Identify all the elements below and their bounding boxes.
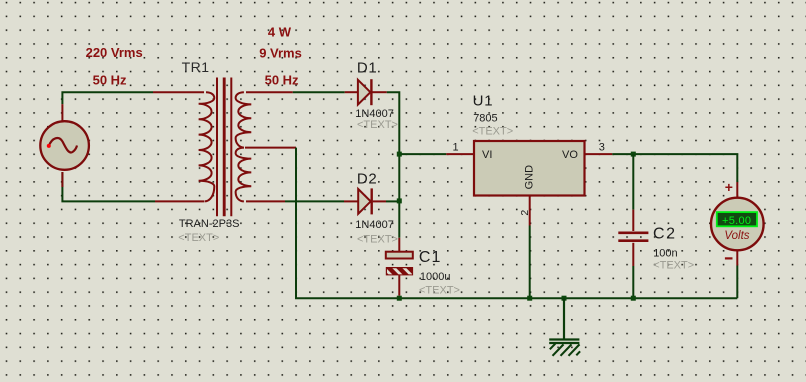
transformer TR1 secondary winding (bottom half) <box>236 148 252 202</box>
capacitor C1 top lead <box>398 238 400 252</box>
AC voltage source <box>40 121 89 170</box>
transformer TR1 core <box>217 78 231 217</box>
voltmeter body <box>711 198 764 251</box>
svg-text:Volts: Volts <box>724 230 749 242</box>
wire: D1 cathode right and down the main node <box>387 92 400 238</box>
svg-text:50 Hz: 50 Hz <box>93 72 127 87</box>
junction: C1 / rail <box>397 296 402 301</box>
voltmeter bottom lead <box>736 250 738 298</box>
junction: ground symbol / rail <box>562 296 567 301</box>
wire: source bottom to transformer primary bottom <box>62 172 204 201</box>
svg-text:C2: C2 <box>653 225 677 242</box>
svg-text:VO: VO <box>562 149 578 161</box>
capacitor C2 plates <box>618 233 648 241</box>
wire: node to U1 pin 1 <box>399 153 473 155</box>
wire: secondary bottom to D2 anode <box>246 200 358 202</box>
wire: secondary top to D1 anode <box>246 91 358 93</box>
diode D2 <box>358 188 386 214</box>
svg-text:C1: C1 <box>419 249 441 266</box>
svg-text:TRAN-2P3S: TRAN-2P3S <box>179 218 240 230</box>
junction: C2 / rail <box>631 296 636 301</box>
svg-text:D1: D1 <box>357 60 377 77</box>
svg-text:100n: 100n <box>653 248 677 260</box>
svg-text:<TEXT>: <TEXT> <box>178 232 219 244</box>
svg-text:1N4007: 1N4007 <box>355 219 394 231</box>
wire: U1 pin 3 (VO) to output rail <box>586 154 738 182</box>
junction: VO / C2 top node <box>631 152 636 157</box>
svg-text:1000u: 1000u <box>420 271 451 283</box>
wire: D2 cathode to node <box>386 200 399 202</box>
transformer TR1 primary winding <box>199 92 215 201</box>
capacitor C1 <box>382 252 423 296</box>
junction: U1 GND / rail <box>527 296 532 301</box>
transformer TR1 secondary winding (top half) <box>236 92 252 147</box>
svg-text:TR1: TR1 <box>182 59 210 75</box>
ground symbol <box>549 298 580 356</box>
svg-text:220 Vrms: 220 Vrms <box>86 45 143 60</box>
svg-text:+: + <box>725 179 733 195</box>
svg-text:7805: 7805 <box>473 113 497 125</box>
svg-text:<TEXT>: <TEXT> <box>653 260 694 272</box>
voltmeter top lead <box>736 182 738 197</box>
svg-text:9 Vrms: 9 Vrms <box>259 45 302 60</box>
svg-text:1: 1 <box>453 141 459 153</box>
svg-text:+5.00: +5.00 <box>722 215 751 227</box>
svg-text:D2: D2 <box>357 171 377 188</box>
junction: D1/pin1 node <box>397 152 402 157</box>
svg-text:3: 3 <box>599 141 605 153</box>
wire: secondary center tap down to ground rail <box>245 148 399 299</box>
diode D1 <box>358 79 387 105</box>
svg-text:4 W: 4 W <box>268 25 292 40</box>
ground rail wire <box>399 297 737 299</box>
svg-text:U1: U1 <box>473 92 494 109</box>
svg-text:<TEXT>: <TEXT> <box>419 285 460 297</box>
svg-text:<TEXT>: <TEXT> <box>357 119 398 131</box>
voltmeter minus sign <box>725 257 733 259</box>
svg-text:<TEXT>: <TEXT> <box>357 234 398 246</box>
svg-text:VI: VI <box>482 149 492 161</box>
svg-text:50 Hz: 50 Hz <box>265 72 299 87</box>
junction: D2 node <box>397 198 402 203</box>
wire: U1 pin 2 (GND) down to rail <box>529 196 531 298</box>
svg-text:<TEXT>: <TEXT> <box>472 126 513 138</box>
capacitor C2 leads <box>632 154 634 298</box>
voltmeter display <box>717 212 757 227</box>
regulator U1 box <box>474 141 585 196</box>
wire: source top to transformer primary top <box>62 92 204 121</box>
svg-text:GND: GND <box>524 165 536 190</box>
